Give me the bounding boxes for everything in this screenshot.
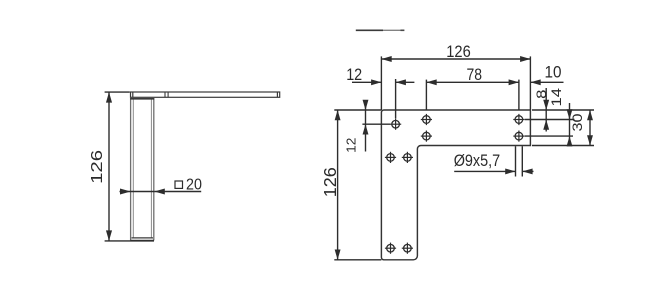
svg-text:126: 126 [89,150,106,184]
dimension 78: dimension line [426,81,519,83]
dimension 10: arrows and tail [530,81,563,83]
dimension 12 vertical top view [365,100,367,152]
svg-text:30: 30 [570,114,585,132]
square symbol [175,181,183,188]
svg-text:20: 20 [186,176,202,193]
svg-text:126: 126 [320,167,340,197]
side view: tube top weld line [130,98,154,100]
dimension 126 top: extension lines [380,56,382,110]
top view: L-shaped plate outline [381,110,530,260]
dimension 14 [569,103,571,146]
extension line hole column 1 [395,79,397,118]
svg-text:Ø9x5,7: Ø9x5,7 [454,152,501,170]
dimension slot: leader lines and arrows [454,170,515,172]
dimension 126 side view: dimension line [108,92,110,241]
hole H3 [421,131,432,142]
dimension 78: extension lines [425,80,427,110]
hole H6 [385,152,396,163]
hole H2 [421,114,432,125]
svg-text:12: 12 [346,65,362,84]
dimension 126 left: dimension line [337,110,339,260]
right side extension lines [532,109,594,111]
dimension slot 9x5,7: extension lines [515,146,517,176]
dimension 12 top row: leader, arrows [352,81,381,83]
svg-text:126: 126 [446,42,471,61]
hole H1 [390,119,401,130]
dimension 126 left of top view: extension lines [334,109,381,111]
hole H4 slot [513,114,524,125]
side view: plate weld tick marks [165,92,168,97]
dimension square-20: leader lines and arrows [120,191,155,193]
svg-text:14: 14 [549,87,564,106]
stray border artifact line [356,29,405,31]
side view: square tube inner wall lines [133,100,151,239]
hole H9 [402,243,413,254]
side view: square tube leg outer edges [131,98,154,240]
side view: tube bottom end lines [130,238,154,240]
svg-text:10: 10 [545,62,562,81]
svg-text:8: 8 [534,90,549,99]
svg-text:78: 78 [467,65,483,84]
dimension 30 [589,110,591,146]
dimension 8 [545,88,547,132]
hole H7 [402,152,413,163]
dimension 126 top: dimension line [381,58,530,60]
dimension 126 side view: extension lines [105,91,130,93]
svg-text:12: 12 [344,137,358,152]
side view: top plate bar [131,92,280,97]
hole H8 [385,243,396,254]
hole H5 slot [513,131,524,142]
